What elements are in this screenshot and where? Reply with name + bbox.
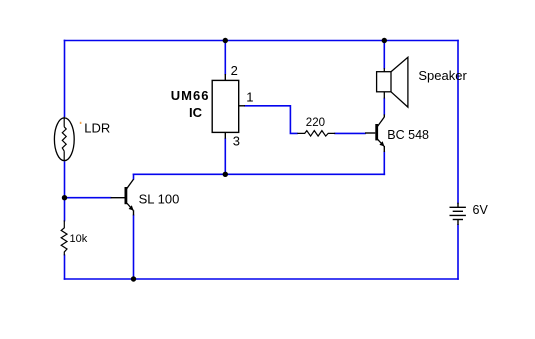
svg-text:BC 548: BC 548	[387, 128, 429, 142]
svg-text:SL 100: SL 100	[139, 192, 180, 207]
svg-text:6V: 6V	[473, 203, 489, 217]
svg-text:Speaker: Speaker	[418, 68, 467, 83]
svg-text:LDR: LDR	[84, 120, 110, 135]
svg-text:IC: IC	[189, 105, 203, 120]
svg-text:1: 1	[246, 90, 253, 105]
svg-text:220: 220	[306, 117, 325, 129]
svg-text:3: 3	[233, 134, 240, 149]
svg-text:10k: 10k	[70, 233, 88, 245]
svg-text:UM66: UM66	[171, 88, 210, 103]
svg-text:2: 2	[231, 63, 238, 78]
